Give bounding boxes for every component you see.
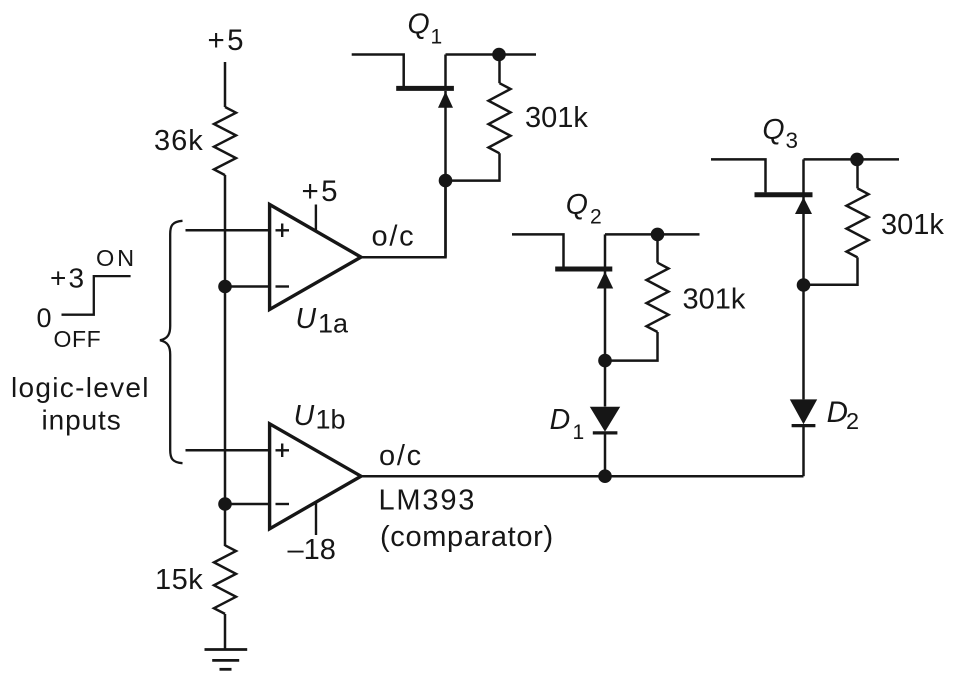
svg-text:inputs: inputs <box>42 405 122 436</box>
svg-text:301k: 301k <box>525 102 588 134</box>
svg-text:301k: 301k <box>683 284 746 316</box>
svg-text:+3: +3 <box>50 262 86 293</box>
svg-text:D: D <box>550 404 571 436</box>
svg-text:0: 0 <box>37 303 52 333</box>
svg-text:1: 1 <box>573 421 585 444</box>
svg-text:ON: ON <box>96 245 137 271</box>
svg-text:3: 3 <box>786 128 799 153</box>
svg-text:(comparator): (comparator) <box>380 521 554 553</box>
svg-text:LM393: LM393 <box>379 485 477 517</box>
svg-text:–18: –18 <box>288 534 336 566</box>
svg-text:Q: Q <box>762 114 784 146</box>
svg-text:U: U <box>296 303 317 335</box>
svg-text:D: D <box>827 396 848 429</box>
svg-text:1: 1 <box>431 26 443 49</box>
svg-text:2: 2 <box>590 205 602 228</box>
svg-text:Q: Q <box>566 189 588 221</box>
svg-text:+5: +5 <box>208 24 246 57</box>
svg-text:36k: 36k <box>154 125 204 157</box>
svg-text:15k: 15k <box>155 564 203 596</box>
svg-text:301k: 301k <box>881 209 944 241</box>
svg-text:Q: Q <box>408 8 430 40</box>
svg-text:OFF: OFF <box>54 326 102 352</box>
svg-text:o/c: o/c <box>379 440 423 472</box>
svg-text:1a: 1a <box>318 309 349 339</box>
svg-text:o/c: o/c <box>372 220 416 252</box>
svg-text:2: 2 <box>846 408 859 434</box>
svg-text:U: U <box>294 400 315 432</box>
svg-text:1b: 1b <box>316 404 346 434</box>
svg-text:+5: +5 <box>302 175 340 208</box>
svg-text:logic-level: logic-level <box>11 372 150 403</box>
